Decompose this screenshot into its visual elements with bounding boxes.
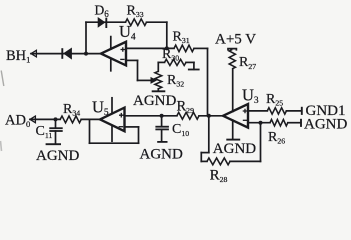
svg-text:AGND: AGND: [213, 141, 256, 157]
svg-text:AGND: AGND: [140, 147, 183, 163]
svg-text:AGND: AGND: [36, 148, 79, 164]
svg-text:A+5 V: A+5 V: [215, 31, 256, 47]
svg-text:AGND: AGND: [304, 117, 347, 133]
svg-text:AGND: AGND: [133, 93, 176, 109]
